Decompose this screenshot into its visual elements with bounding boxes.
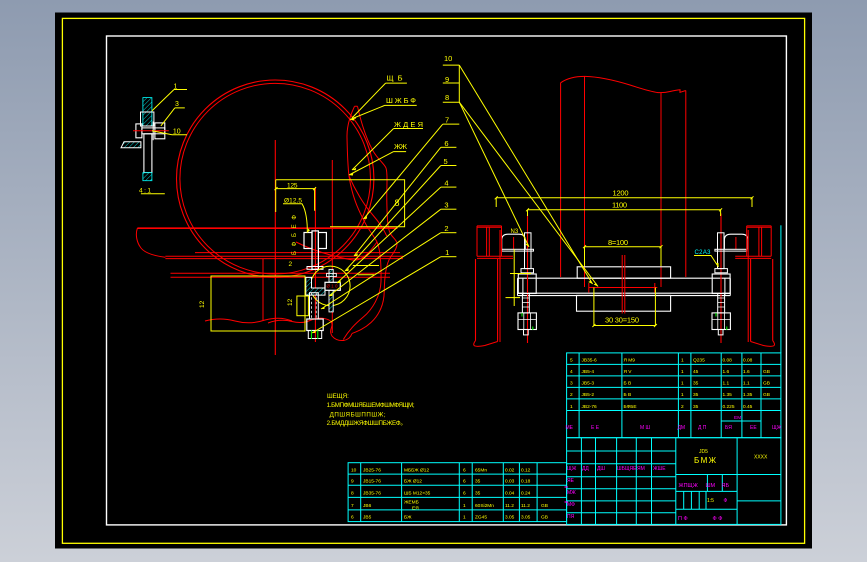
svg-text:1: 1 [570,404,573,410]
svg-text:8=100: 8=100 [608,238,628,247]
arrowheads on leaders [352,117,357,119]
BOM header weight label [721,420,761,422]
svg-text:5: 5 [444,157,448,166]
pivot pin hatched [329,269,333,312]
det plate lower strip [144,134,152,173]
left wheel foot [474,341,498,347]
svg-text:1: 1 [463,515,466,521]
BOM row1 text [570,358,753,364]
title mark row magenta [679,483,730,489]
center red pair [622,255,625,314]
dim 1200 [496,198,752,207]
svg-text:1.35: 1.35 [743,392,753,398]
svg-text:Ф: Ф [724,498,728,504]
svg-text:1: 1 [445,248,449,257]
svg-text:JB6: JB6 [363,503,372,509]
leader b10 long [459,65,592,284]
right wheel foot [751,341,775,347]
det washer [152,122,154,141]
shock bolt centerline [314,188,316,342]
dim 125 ext lines [276,180,315,212]
dim 30 30=150 [594,288,656,326]
frame rail top edge [137,227,397,229]
spring seat yellow box [211,276,305,331]
svg-text:4:1: 4:1 [139,187,151,194]
svg-text:ШМ: ШМ [706,483,716,489]
green lock ticks [311,330,317,339]
BOM table outline [567,353,781,438]
L-bracket hatched [306,277,325,295]
svg-text:6: 6 [463,467,466,473]
svg-text:3.05: 3.05 [505,515,515,521]
svg-text:Q235: Q235 [693,358,705,364]
wheel tire inner circle [180,83,371,274]
leader b4 [337,187,441,283]
svg-text:3: 3 [570,381,573,387]
right block [712,274,730,294]
fender bottom wavy edge [268,318,352,340]
leader tick 3 inner [506,297,521,299]
svg-text:ЩЖ: ЩЖ [772,425,782,431]
axle beam left cap [518,278,523,295]
svg-text:1100: 1100 [612,200,627,209]
dim 125 line [276,188,315,190]
svg-text:GB: GB [763,369,770,375]
right extra vertical [747,230,749,342]
svg-text:1: 1 [681,358,684,364]
svg-text:3: 3 [444,201,448,210]
svg-text:ДПШЯБШППШЖ;: ДПШЯБШППШЖ; [330,411,386,418]
svg-text:ШБ M12×35: ШБ M12×35 [404,491,431,497]
svg-text:1: 1 [681,381,684,387]
pin top flange [327,273,337,276]
svg-text:30 30=150: 30 30=150 [605,315,639,324]
svg-text:П Ф: П Ф [678,516,688,522]
ext BOM row3 [351,491,531,497]
svg-text:JB5: JB5 [363,515,372,521]
svg-text:ЯМ: ЯМ [637,466,645,472]
axle beam right cap [725,278,730,295]
svg-text:ЩЖ: ЩЖ [567,466,577,472]
balloon ladder right vertical [458,65,460,102]
shock bolt shaft [310,293,319,319]
leader b7 [364,124,443,219]
tank left inner line [584,77,586,288]
svg-text:МЕ: МЕ [566,425,574,431]
svg-text:65Mn: 65Mn [475,467,487,473]
svg-text:3: 3 [175,101,179,108]
leader b9 long [459,102,529,247]
svg-text:JD5: JD5 [699,449,708,455]
right shaft [718,294,725,313]
tank right outer line [685,91,687,278]
svg-text:12: 12 [199,300,206,308]
svg-text:ЖШЕ: ЖШЕ [653,466,666,472]
title block outline [567,438,781,525]
leader b6 [354,147,441,256]
svg-text:35: 35 [475,479,481,485]
svg-text:7: 7 [351,503,354,509]
axle beam [518,278,731,295]
leader b3 [329,209,441,296]
svg-text:JB5-3: JB5-3 [582,381,595,387]
svg-text:GB: GB [763,381,770,387]
BOM row2 text [570,369,770,375]
svg-text:JB15-76: JB15-76 [363,479,381,485]
svg-text:2: 2 [289,261,293,268]
svg-text:МББЖ Ø12: МББЖ Ø12 [404,467,429,473]
svg-text:ДШ: ДШ [597,466,605,472]
det plate hatched upper [143,98,152,126]
svg-text:1: 1 [681,369,684,375]
svg-text:ШЖБФ: ШЖБФ [386,96,416,105]
svg-text:0.225: 0.225 [723,404,735,410]
svg-text:GB: GB [763,392,770,398]
svg-text:Ф Ф: Ф Ф [713,516,723,522]
svg-text:12: 12 [287,298,294,306]
shock bolt nut2 [308,331,321,339]
svg-text:6: 6 [463,479,466,485]
pin centerline [331,160,333,333]
BOM row4 text [570,392,770,398]
svg-text:1.35: 1.35 [723,392,733,398]
svg-text:2: 2 [570,392,573,398]
svg-text:6: 6 [444,139,448,148]
svg-text:БЯ: БЯ [725,425,732,431]
right collar [715,269,728,273]
fender outline left [343,106,381,339]
svg-text:БЖ: БЖ [404,515,412,521]
svg-text:6: 6 [351,515,354,521]
svg-text:JB5-4: JB5-4 [582,369,595,375]
svg-text:Ø10: Ø10 [327,284,339,289]
right buffer arch [724,234,748,249]
dim oblique ticks [275,187,754,327]
svg-text:35: 35 [475,491,481,497]
svg-text:2: 2 [681,404,684,410]
svg-text:N3: N3 [511,229,519,235]
left shaft [522,294,529,313]
ext BOM outline [348,463,566,522]
right wheel box [751,259,773,342]
svg-text:4: 4 [570,369,573,375]
BOM row3 text [570,381,770,387]
leader tick 1 inner [353,266,379,275]
svg-text:ШБЩЯЕ: ШБЩЯЕ [617,466,637,472]
det bolt centerline [133,130,169,132]
svg-text:Е Е: Е Е [591,425,600,431]
title signature row magenta [567,466,666,472]
svg-text:0.24: 0.24 [521,491,531,497]
title stage boxes verticals [684,491,706,509]
svg-text:5: 5 [570,358,573,364]
dim 8 box top [276,180,405,227]
svg-text:10: 10 [444,54,452,63]
svg-text:МФ: МФ [567,502,575,508]
svg-text:GB: GB [541,515,548,521]
ext BOM row5 [351,515,548,521]
title bottom magenta [678,516,722,522]
left channel bottom flange [477,256,513,258]
svg-text:1.1: 1.1 [723,381,730,387]
svg-text:0.03: 0.03 [505,479,515,485]
right buffer plate [715,249,747,251]
right green ticks [716,313,727,330]
svg-text:60Si2Mn: 60Si2Mn [475,503,494,509]
svg-text:0.02: 0.02 [505,467,515,473]
svg-text:8: 8 [351,491,354,497]
center red end ticks [589,283,655,293]
svg-text:6: 6 [463,491,466,497]
left U-bolt centerline [527,214,529,344]
svg-text:125: 125 [287,182,298,189]
svg-text:0.12: 0.12 [521,467,531,473]
left channel top flange [477,226,502,256]
left channel web [487,227,490,256]
svg-text:1:5: 1:5 [707,498,714,504]
svg-text:ЕЯ: ЕЯ [412,506,419,512]
right channel web [759,227,762,256]
svg-text:35: 35 [693,404,699,410]
svg-text:МЖ: МЖ [567,490,576,496]
dim 8x100 [585,247,662,266]
svg-text:10: 10 [351,467,357,473]
top plate [577,267,670,278]
cyan right ext line [780,225,782,353]
rail lower line [195,252,400,254]
right channel top flange [747,226,772,256]
svg-text:0.18: 0.18 [521,479,531,485]
shock bolt nut [307,319,323,331]
spacer yellow box [297,296,309,316]
svg-text:Б B: Б B [624,392,632,398]
svg-text:0.08: 0.08 [723,358,733,364]
svg-text:7: 7 [445,116,449,125]
svg-text:ЕМ: ЕМ [734,415,741,421]
svg-text:JB5-2: JB5-2 [582,392,595,398]
left nut [518,313,536,330]
svg-text:Д П: Д П [698,425,707,431]
svg-text:0.04: 0.04 [505,491,515,497]
axle bracket left block [304,233,312,249]
left green ticks [522,313,533,330]
svg-text:JB25-76: JB25-76 [363,467,381,473]
svg-text:М Ш: М Ш [640,425,651,431]
svg-text:0.45: 0.45 [743,404,753,410]
svg-text:9: 9 [445,75,449,84]
frame rail left break curve [136,228,165,257]
svg-text:2.БМДДШЖЯФШШПБЖЕФ。: 2.БМДДШЖЯФШШПБЖЕФ。 [327,420,407,427]
svg-text:9: 9 [351,479,354,485]
tank right inner line [660,93,662,287]
white drawing frame [107,36,787,525]
left extra vertical [499,230,501,342]
fender inner arc [349,176,387,236]
svg-text:JB35-76: JB35-76 [363,491,381,497]
svg-text:ДД: ДД [582,466,589,472]
axle bracket base plate [307,267,323,270]
yellow left ext line [513,249,515,306]
wheel tire outer circle [177,80,374,277]
BOM row lines [567,364,781,410]
svg-text:БЖ Ø12: БЖ Ø12 [404,479,422,485]
svg-text:ЕЕ: ЕЕ [750,425,757,431]
svg-text:ЖПЩЖ: ЖПЩЖ [679,483,698,489]
svg-text:JB2-76: JB2-76 [582,404,598,410]
ext BOM row2 [351,479,531,485]
left wheel box [476,259,498,342]
svg-text:ЖЖ: ЖЖ [394,142,407,151]
svg-text:2: 2 [444,224,448,233]
det bolt head [136,124,142,138]
svg-text:11.2: 11.2 [521,503,530,509]
leader b8 long [459,102,598,286]
BOM header magenta [566,425,782,431]
dim 1100 [528,210,721,216]
detail scope circle [311,266,351,306]
axle bracket right block [318,233,326,249]
frame rail bottom edge double [165,256,403,258]
left tip [524,330,529,335]
svg-text:ZG45: ZG45 [475,515,487,521]
svg-text:XXXX: XXXX [754,455,768,461]
left collar [521,269,534,273]
ext BOM row1 [351,467,531,473]
wheel vertical centerline [274,140,276,355]
right nut [712,313,730,330]
svg-text:Я V: Я V [624,369,633,375]
svg-text:8: 8 [445,93,449,102]
ext BOM magenta dots [565,487,569,502]
left buffer plate [502,249,534,251]
bolt label underline leader [283,204,307,233]
ext BOM row lines [348,474,566,510]
svg-text:Б B: Б B [624,381,632,387]
bracket step vertical [262,259,264,321]
fender outline right [352,106,397,333]
det nut [155,123,165,139]
svg-text:ЯЕ: ЯЕ [567,478,575,484]
left block [518,274,536,294]
title right horizontals [676,475,781,510]
svg-text:0.08: 0.08 [743,358,753,364]
svg-text:4: 4 [444,179,448,188]
svg-text:1: 1 [463,503,466,509]
det bolt shank [142,128,165,134]
svg-text:45: 45 [693,369,699,375]
tank left outer line [560,83,562,277]
title center vertical [736,438,738,525]
leader tick 2 inner [510,273,531,275]
right tip [718,330,723,335]
title left grid horizontals [567,451,676,513]
BOM row5 text [570,404,753,410]
bottom box [577,295,671,311]
det plate bottom tip hatched [143,173,152,181]
svg-text:1.БМПФМШЯБШЕМФШМФЯЩМ;: 1.БМПФМШЯБШЕМФШМФЯЩМ; [327,402,415,409]
leader b5 [345,166,441,272]
svg-text:35: 35 [693,392,699,398]
svg-text:1: 1 [681,392,684,398]
ext BOM row4 [351,500,548,512]
svg-text:1200: 1200 [613,189,629,198]
svg-text:1.1: 1.1 [743,381,750,387]
svg-text:Я M9: Я M9 [624,358,636,364]
svg-text:35: 35 [693,381,699,387]
title mark row verticals [707,475,722,492]
tank top curve [561,76,686,92]
title left grid verticals [581,438,675,525]
svg-text:ДМ: ДМ [678,425,686,431]
svg-text:БФБЕ: БФБЕ [624,404,637,410]
svg-text:ШЕЩЯ:: ШЕЩЯ: [327,393,349,400]
yellow sheet border [62,18,804,543]
right channel bottom flange [735,256,771,258]
ext BOM column lines [361,463,537,522]
leader b1 [312,257,441,333]
lower rail band [171,273,391,277]
title designer magenta [567,478,576,520]
svg-text:ПЯ: ПЯ [567,514,575,520]
right U-bolt centerline [720,214,722,344]
axle bracket post [312,231,318,270]
svg-text:GB: GB [541,503,548,509]
center red horizontal [589,287,658,289]
pin collar white bar [325,282,340,290]
left buffer arch [502,234,526,249]
right post [718,233,725,269]
arm lower inner curve [296,242,377,260]
det angle bracket [121,142,141,148]
svg-text:3.05: 3.05 [521,515,531,521]
left post [525,233,532,269]
svg-text:ЯБ: ЯБ [722,483,730,489]
svg-text:ЖЕМБ: ЖЕМБ [404,500,419,506]
BOM column lines [579,353,761,438]
svg-text:11.2: 11.2 [505,503,514,509]
svg-text:1.6: 1.6 [743,369,750,375]
svg-text:JB35-6: JB35-6 [582,358,598,364]
svg-text:1.6: 1.6 [723,369,730,375]
det plate white housing [141,112,154,126]
svg-text:БМЖ: БМЖ [694,456,717,465]
frame bottom wavy break line [205,318,292,323]
leader b2 [321,233,441,309]
